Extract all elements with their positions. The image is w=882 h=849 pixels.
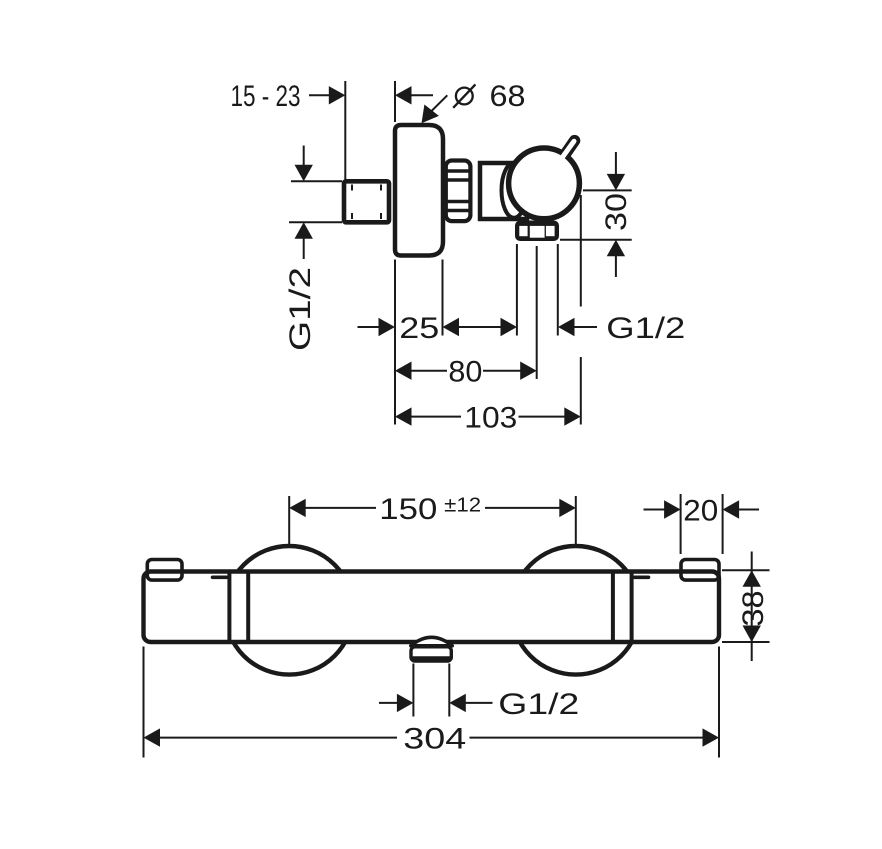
svg-text:20: 20 — [683, 494, 718, 527]
mixer valve body — [480, 163, 527, 219]
dim 304 right ext line — [718, 647, 720, 758]
G1/2 left lower ext line — [289, 221, 342, 223]
dim 80 shaft right — [483, 370, 521, 372]
dim 20 left ext line — [680, 494, 682, 554]
left union outer line — [227, 572, 231, 642]
dim 25 left shaft — [358, 326, 380, 328]
dim 20 right ext line — [722, 494, 724, 554]
extension line outlet left — [516, 244, 518, 336]
dim 103 shaft left — [411, 416, 461, 418]
dim 304 left arrowhead — [144, 728, 161, 746]
dim 38 upper arrowhead — [743, 570, 761, 587]
diameter symbol circle — [456, 88, 473, 105]
dim G1/2 bottom left shaft — [379, 702, 398, 704]
G1/2 left lower arrowhead — [295, 222, 313, 239]
mixer bar body — [144, 572, 720, 643]
right cap tick — [635, 575, 649, 579]
svg-text:±12: ±12 — [444, 495, 481, 517]
dim 30 label — [600, 193, 633, 231]
right union inner line — [611, 572, 615, 642]
dim 103 left arrowhead — [395, 407, 412, 425]
pipe thread tick top-left — [351, 185, 353, 191]
dim 30 lower arrowhead — [607, 240, 625, 256]
dim 80 shaft left — [411, 370, 447, 372]
dim 38 label — [737, 591, 770, 627]
diameter leader arrowhead — [422, 105, 439, 124]
left union inner line — [246, 572, 250, 642]
dim 20 right arrowhead — [723, 500, 740, 518]
wall supply pipe nipple — [344, 181, 389, 222]
right union outer line — [630, 572, 634, 642]
dim 304 right arrowhead — [703, 728, 720, 746]
dim 304 shaft right — [470, 737, 704, 739]
dim G1/2 bottom right shaft — [465, 702, 493, 704]
dim 25-span shaft — [459, 326, 502, 328]
extension line handle right lower — [580, 357, 582, 425]
extension line outlet axis — [536, 246, 538, 379]
svg-text:150: 150 — [379, 493, 437, 526]
G1/2 left upper shaft — [303, 146, 305, 167]
dim 30 lower shaft — [615, 256, 617, 277]
extension line escutcheon back — [442, 260, 444, 336]
outlet thread window right — [546, 226, 555, 236]
dim 30 upper shaft — [615, 152, 617, 174]
extension line outlet right — [557, 244, 559, 336]
svg-text:30: 30 — [600, 193, 633, 231]
bobbin ridge line 4 — [446, 209, 470, 212]
svg-text:G1/2: G1/2 — [284, 267, 317, 351]
G1/2 left upper arrowhead — [295, 165, 313, 182]
dim 15-23 right shaft — [412, 94, 434, 96]
dim 25-span right arrowhead — [501, 318, 518, 336]
dim 38 lower arrowhead — [743, 626, 761, 643]
bobbin ridge line 1 — [446, 169, 470, 172]
outlet pipe right line — [448, 664, 450, 717]
dim 103 shaft right — [519, 416, 566, 418]
svg-text:38: 38 — [737, 591, 770, 627]
outlet dome — [411, 637, 452, 646]
outlet nut thick bottom — [412, 656, 451, 660]
dim G1/2 bottom right arrowhead — [449, 694, 466, 712]
G1/2 right shaft — [574, 326, 597, 328]
threaded connector bobbin — [446, 161, 471, 222]
handle knob circle — [509, 148, 580, 219]
right union escutcheon circle — [512, 546, 641, 675]
diameter symbol slash — [453, 84, 475, 107]
pipe thread tick bottom-right — [380, 213, 382, 219]
dim 150 left arrowhead — [289, 499, 306, 517]
left union escutcheon circle — [225, 546, 354, 675]
bobbin ridge line 2 — [446, 178, 470, 181]
extension line escutcheon face lower — [394, 260, 396, 425]
dim G1/2 bottom left arrowhead — [397, 694, 414, 712]
dim 150 left ext line — [288, 496, 290, 546]
dim 38 vertical shaft — [751, 552, 753, 662]
dim 30 upper ext line — [583, 189, 632, 191]
dim 15-23 left arrowhead — [329, 86, 346, 104]
svg-text:G1/2: G1/2 — [606, 312, 685, 345]
dim 38 upper ext line — [722, 569, 770, 571]
left end cap tab — [147, 560, 182, 581]
svg-text:103: 103 — [464, 401, 517, 434]
G1/2 right arrowhead — [558, 318, 575, 336]
bobbin ridge line 3 — [446, 200, 470, 203]
outlet thread window left — [519, 226, 527, 236]
dim 15-23 left shaft — [309, 94, 330, 96]
diameter leader line — [430, 95, 448, 113]
dim 30 upper arrowhead — [607, 174, 625, 191]
right end cap tab — [681, 560, 719, 581]
extension line escutcheon face upper — [394, 81, 396, 122]
dim 20 left arrowhead — [664, 500, 681, 518]
svg-text:25: 25 — [399, 312, 439, 345]
svg-text:304: 304 — [403, 722, 466, 755]
svg-text:G1/2: G1/2 — [498, 688, 579, 721]
dim 80 right arrowhead — [520, 362, 537, 380]
outlet thread window middle — [530, 226, 545, 238]
G1/2 left lower shaft — [303, 239, 305, 260]
svg-text:15 - 23: 15 - 23 — [231, 80, 301, 113]
svg-text:68: 68 — [490, 80, 526, 113]
escutcheon flange — [395, 125, 443, 256]
dim 150 shaft right — [485, 507, 560, 509]
extension line pipe left (15-23) — [344, 81, 346, 180]
handle stub white channel — [555, 141, 574, 167]
pipe thread tick bottom-left — [351, 213, 353, 219]
extension line handle right upper — [580, 195, 582, 307]
dim 150 right arrowhead — [559, 499, 576, 517]
svg-text:80: 80 — [448, 356, 482, 389]
left cap tick — [213, 575, 227, 579]
G1/2 left upper ext line — [291, 180, 342, 182]
cartridge dome behind handle — [502, 163, 527, 218]
dim 80 left arrowhead — [395, 362, 412, 380]
dim 150 shaft left — [306, 507, 377, 509]
shower outlet nipple — [515, 221, 559, 242]
dim 304 shaft left — [160, 737, 398, 739]
dim 20 right shaft — [739, 509, 760, 511]
G1/2 left label — [284, 267, 317, 351]
dim 38 lower ext line — [722, 641, 770, 643]
outlet pipe left line — [412, 664, 414, 717]
dim 304 left ext line — [143, 647, 145, 758]
dim 25 left arrowhead — [379, 318, 396, 336]
dim 150 right ext line — [575, 496, 577, 546]
dim 103 right arrowhead — [564, 407, 581, 425]
dim 20 left shaft — [644, 509, 665, 511]
dim 30 lower ext line — [560, 239, 632, 241]
dim 15-23 right arrowhead — [395, 86, 412, 104]
dim 25-span left arrowhead — [443, 318, 460, 336]
pipe thread tick top-right — [380, 185, 382, 191]
outlet nut — [411, 647, 451, 661]
handle temperature stub outline — [561, 141, 575, 161]
